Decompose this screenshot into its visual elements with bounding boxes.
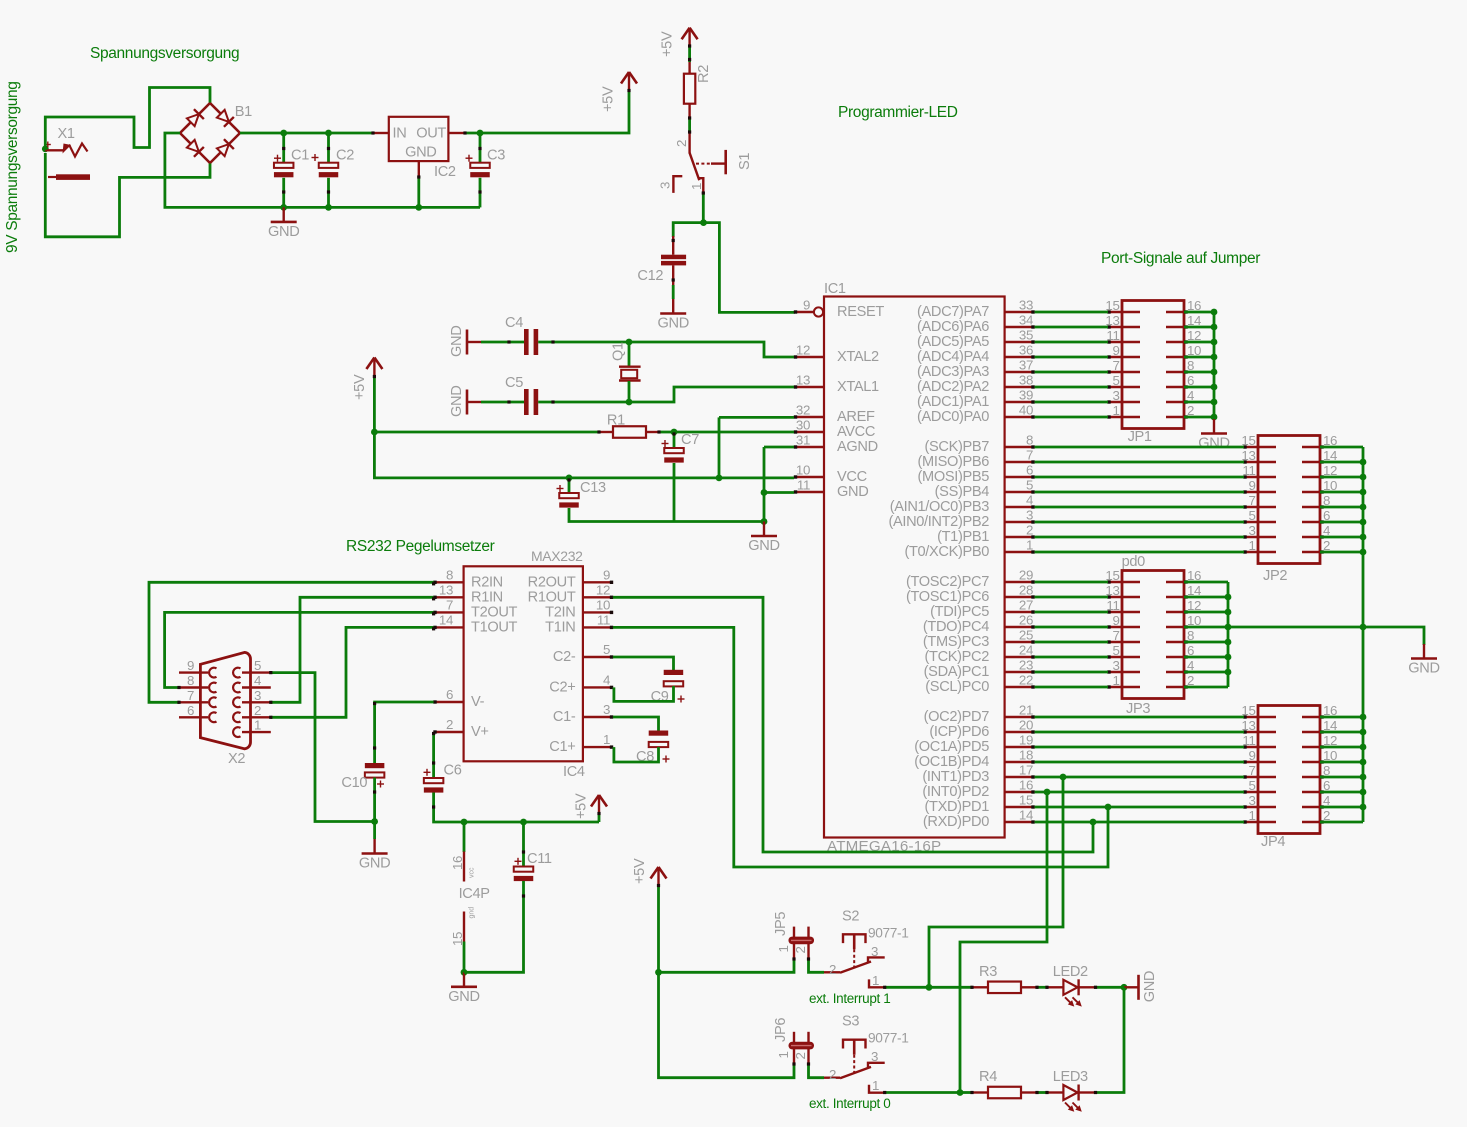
IC1 pin 33 (ADC7)PA7: [1005, 311, 1035, 313]
IC1 pin 15 (TXD)PD1: [1005, 806, 1035, 808]
voltage regulator IC2: [389, 117, 449, 161]
JP1 pin 12: [1166, 341, 1184, 344]
svg-text:9: 9: [187, 658, 194, 673]
JP2 pin 9: [1244, 491, 1276, 494]
bridge rectifier B1: [180, 103, 210, 133]
svg-text:6: 6: [1026, 463, 1033, 478]
svg-text:C5: C5: [505, 375, 523, 391]
capacitor C5: [481, 401, 524, 404]
svg-text:(AIN1/OC0)PB3: (AIN1/OC0)PB3: [890, 499, 989, 515]
svg-text:8: 8: [446, 567, 453, 582]
JP1 pin 2: [1166, 416, 1184, 419]
capacitor C9: [613, 657, 674, 670]
svg-text:19: 19: [1019, 733, 1033, 748]
resistor R4: [960, 1091, 972, 1094]
wire S2 pin1 to node: [885, 986, 929, 989]
svg-text:18: 18: [1019, 748, 1033, 763]
IC4 pin 10 T2IN: [583, 611, 613, 613]
svg-text:T2IN: T2IN: [545, 604, 575, 620]
svg-text:(ADC5)PA5: (ADC5)PA5: [917, 334, 989, 350]
svg-text:(T0/XCK)PB0: (T0/XCK)PB0: [904, 544, 989, 560]
JP4 pin 2: [1302, 821, 1320, 824]
svg-text:2: 2: [674, 140, 689, 147]
wires JP2 to ground bus: [1320, 446, 1363, 449]
ground right of LED2: [1124, 986, 1139, 988]
JP3 pin 10: [1166, 626, 1184, 629]
switch S1: [688, 133, 690, 153]
svg-text:9: 9: [1112, 343, 1119, 358]
svg-text:RS232 Pegelumsetzer: RS232 Pegelumsetzer: [346, 538, 495, 555]
wire V+ to C6: [432, 732, 435, 779]
JP2 pin 16: [1302, 446, 1320, 449]
svg-text:GND: GND: [405, 145, 436, 161]
wire AGND to GND net: [764, 446, 794, 449]
switch S3: [809, 1063, 825, 1078]
svg-text:IC1: IC1: [824, 281, 846, 297]
IC1 pin 6 (MOSI)PB5: [1005, 476, 1035, 478]
svg-text:4: 4: [603, 672, 610, 687]
svg-text:Q1: Q1: [610, 342, 626, 361]
wire node to C12: [673, 223, 703, 237]
svg-text:3: 3: [658, 182, 673, 189]
IC1 pin 20 (ICP)PD6: [1005, 731, 1035, 733]
IC1 pin 19 (OC1A)PD5: [1005, 746, 1035, 748]
JP1 pin 7: [1108, 371, 1140, 374]
svg-text:(RXD)PD0: (RXD)PD0: [923, 814, 989, 830]
IC4 pin 7 T2OUT: [434, 611, 464, 613]
svg-text:C2-: C2-: [553, 649, 576, 665]
svg-text:+5V: +5V: [632, 858, 648, 884]
svg-text:Spannungsversorgung: Spannungsversorgung: [90, 45, 239, 62]
JP1 pin 11: [1108, 341, 1140, 344]
jumper JP5: [793, 927, 795, 959]
svg-text:8: 8: [187, 673, 194, 688]
crystal Q1: [628, 342, 631, 366]
wire C5 to XTAL1: [629, 387, 794, 402]
svg-text:S2: S2: [842, 908, 859, 924]
svg-text:13: 13: [796, 373, 810, 388]
svg-text:(TOSC1)PC6: (TOSC1)PC6: [906, 589, 989, 605]
JP2 pin 6: [1302, 521, 1320, 524]
IC1 pin 36 (ADC4)PA4: [1005, 356, 1035, 358]
svg-text:(OC1A)PD5: (OC1A)PD5: [914, 739, 989, 755]
IC1 pin 17 (INT1)PD3: [1005, 776, 1035, 778]
svg-text:R1OUT: R1OUT: [528, 589, 576, 605]
wire PD2 to switch S3: [960, 792, 1047, 1093]
IC4 pin 2 V+: [434, 731, 464, 733]
IC4 pin 13 R1IN: [434, 596, 464, 598]
ground under C10: [373, 822, 376, 840]
svg-text:7: 7: [446, 597, 453, 612]
wires JP3 to ground column: [1184, 581, 1228, 584]
svg-text:26: 26: [1019, 613, 1033, 628]
svg-text:IN: IN: [393, 126, 407, 142]
capacitor C12: [672, 236, 674, 255]
svg-text:(INT1)PD3: (INT1)PD3: [922, 769, 989, 785]
IC1 pin 25 (TMS)PC3: [1005, 641, 1035, 643]
svg-text:JP5: JP5: [773, 912, 789, 936]
+5V symbol above R2: [682, 28, 690, 40]
IC1 pin 3 (AIN0/INT2)PB2: [1005, 521, 1035, 523]
wires IC1 port A to JP1: [1035, 311, 1108, 314]
IC1 pin 16 (INT0)PD2: [1005, 791, 1035, 793]
svg-text:XTAL1: XTAL1: [837, 379, 879, 395]
svg-text:3: 3: [1248, 793, 1255, 808]
svg-text:1: 1: [872, 973, 879, 988]
svg-text:9077-1: 9077-1: [868, 925, 909, 940]
X2 pin 1: [242, 731, 271, 733]
svg-text:31: 31: [796, 433, 810, 448]
JP3 pin 14: [1166, 596, 1184, 599]
wire bridge plus to IC2 IN: [240, 132, 373, 135]
svg-text:IC2: IC2: [434, 164, 456, 180]
svg-text:11: 11: [597, 612, 610, 627]
wires IC1 port D to JP4: [1035, 716, 1244, 719]
JP4 pin 16: [1302, 716, 1320, 719]
svg-text:IC4P: IC4P: [459, 886, 490, 902]
JP1 pin 13: [1108, 326, 1140, 329]
svg-text:C4: C4: [505, 315, 523, 331]
LED LED3: [1048, 1091, 1064, 1093]
svg-text:6: 6: [187, 703, 194, 718]
svg-text:1: 1: [776, 945, 791, 952]
svg-text:30: 30: [796, 418, 810, 433]
svg-text:22: 22: [1019, 673, 1033, 688]
wire T2OUT to X2 pin8: [165, 612, 434, 687]
capacitor C6: [424, 778, 444, 783]
svg-text:8: 8: [1026, 433, 1033, 448]
node PD1 TXD: [1105, 804, 1112, 811]
svg-text:JP3: JP3: [1126, 701, 1150, 717]
IC1 pin 22 (SCL)PC0: [1005, 686, 1035, 688]
JP2 pin 3: [1244, 536, 1276, 539]
JP2 pin 1: [1244, 551, 1276, 554]
svg-text:ext. Interrupt 0: ext. Interrupt 0: [809, 1096, 890, 1111]
svg-text:IC4: IC4: [563, 764, 585, 780]
wire X2 pin5 to ground: [271, 673, 375, 822]
svg-text:7: 7: [1248, 763, 1255, 778]
svg-text:JP1: JP1: [1128, 429, 1152, 445]
wire ground bus down to LED3: [1094, 987, 1124, 1092]
X2 pin 8: [179, 686, 208, 688]
wire +5V down to VCC row: [374, 432, 794, 478]
svg-text:9077-1: 9077-1: [868, 1031, 909, 1046]
resistor R1: [374, 431, 599, 434]
X2 pin 6: [179, 716, 208, 718]
svg-text:35: 35: [1019, 328, 1033, 343]
svg-text:2: 2: [829, 962, 836, 977]
node C11 branch: [520, 819, 527, 826]
svg-text:3: 3: [1248, 523, 1255, 538]
JP3 pin 11: [1108, 611, 1140, 614]
svg-text:AREF: AREF: [837, 409, 875, 425]
svg-text:S1: S1: [737, 153, 753, 170]
wire S3 pin1 to node: [885, 1091, 960, 1094]
X2 pin 3: [242, 701, 271, 703]
jumper header JP3: [1122, 571, 1184, 699]
svg-text:16: 16: [450, 856, 465, 870]
svg-text:1: 1: [1248, 808, 1255, 823]
wire JP3 ground column to GND: [1228, 627, 1424, 645]
svg-text:4: 4: [1026, 493, 1033, 508]
node IC4P VCC branch: [461, 819, 468, 826]
node PD0 RXD: [1090, 819, 1097, 826]
svg-text:21: 21: [1019, 703, 1033, 718]
wire bridge minus to ground rail: [165, 133, 480, 207]
svg-text:T1IN: T1IN: [545, 619, 575, 635]
X2 pin 5: [242, 671, 271, 673]
wire R2IN to X2 pin7: [149, 582, 434, 702]
IC1 pin 9 RESET: [795, 311, 814, 313]
IC4 pin 12 R1OUT: [583, 596, 613, 598]
capacitor C10: [365, 763, 385, 768]
svg-text:11: 11: [797, 478, 810, 493]
svg-text:29: 29: [1019, 568, 1033, 583]
JP3 pin 2: [1166, 686, 1184, 689]
wire node to IC1 RESET: [704, 223, 796, 313]
JP3 pin 13: [1108, 596, 1140, 599]
wires JP1 to ground bus: [1184, 311, 1214, 314]
JP3 pin 16: [1166, 581, 1184, 584]
svg-text:13: 13: [439, 582, 453, 597]
wires IC1 port B to JP2: [1035, 446, 1244, 449]
svg-text:34: 34: [1019, 313, 1033, 328]
IC1 pin 31 AGND: [794, 446, 824, 448]
JP2 pin 15: [1244, 446, 1276, 449]
ground right of JP3: [1423, 644, 1425, 659]
svg-text:(T1)PB1: (T1)PB1: [937, 529, 989, 545]
svg-text:9V Spannungsversorgung: 9V Spannungsversorgung: [4, 81, 21, 253]
IC4 pin 5 C2-: [583, 656, 613, 658]
JP4 pin 9: [1244, 761, 1276, 764]
wires JP4 to ground bus: [1320, 716, 1363, 719]
svg-text:C1: C1: [291, 148, 309, 164]
JP1 pin 14: [1166, 326, 1184, 329]
svg-text:5: 5: [1112, 373, 1119, 388]
IC1 pin 38 (ADC2)PA2: [1005, 386, 1035, 388]
svg-text:ext. Interrupt 1: ext. Interrupt 1: [809, 991, 890, 1006]
svg-text:(TMS)PC3: (TMS)PC3: [923, 634, 989, 650]
svg-text:3: 3: [871, 1049, 878, 1064]
svg-text:C3: C3: [487, 148, 505, 164]
JP2 pin 11: [1244, 476, 1276, 479]
svg-text:4: 4: [254, 673, 261, 688]
JP3 pin 15: [1108, 581, 1140, 584]
IC1 pin 40 (ADC0)PA0: [1005, 416, 1035, 418]
svg-text:5: 5: [603, 642, 610, 657]
wire X1 tip to bridge top: [45, 88, 210, 151]
+5V symbol for interrupts: [651, 867, 659, 879]
+5V symbol at AVCC: [366, 358, 374, 370]
svg-text:(ADC1)PA1: (ADC1)PA1: [917, 394, 989, 410]
svg-text:(AIN0/INT2)PB2: (AIN0/INT2)PB2: [888, 514, 989, 530]
JP3 pin 12: [1166, 611, 1184, 614]
svg-text:(ADC6)PA6: (ADC6)PA6: [917, 319, 989, 335]
wire PD3 to switch S2: [929, 777, 1063, 987]
capacitor C11: [522, 822, 525, 867]
svg-text:V+: V+: [471, 724, 489, 740]
svg-text:1: 1: [689, 183, 704, 190]
svg-text:(OC1B)PD4: (OC1B)PD4: [914, 754, 989, 770]
svg-text:7: 7: [1248, 493, 1255, 508]
node PD2 INT0: [1044, 789, 1051, 796]
svg-text:39: 39: [1019, 388, 1033, 403]
wires IC1 port C to JP3: [1035, 581, 1108, 584]
svg-text:9: 9: [1112, 613, 1119, 628]
svg-text:V-: V-: [471, 694, 485, 710]
svg-text:OUT: OUT: [416, 126, 446, 142]
IC1 pin 11 GND: [794, 491, 824, 493]
wire LED2 to ground: [1094, 986, 1124, 989]
svg-text:GND: GND: [449, 386, 465, 417]
svg-text:2: 2: [793, 1052, 808, 1059]
svg-text:R1: R1: [607, 413, 625, 429]
power pin IC4P: [463, 822, 466, 852]
svg-text:3: 3: [871, 944, 878, 959]
wire IC2 OUT to +5V: [464, 90, 629, 133]
wire C4 to XTAL2: [629, 342, 794, 357]
svg-text:40: 40: [1019, 403, 1033, 418]
svg-text:6: 6: [446, 687, 453, 702]
svg-text:1: 1: [1112, 673, 1119, 688]
svg-text:JP4: JP4: [1261, 834, 1285, 850]
JP4 pin 14: [1302, 731, 1320, 734]
svg-text:20: 20: [1019, 718, 1033, 733]
IC1 pin 39 (ADC1)PA1: [1005, 401, 1035, 403]
svg-text:32: 32: [796, 403, 810, 418]
svg-text:17: 17: [1019, 763, 1033, 778]
JP1 pin 10: [1166, 356, 1184, 359]
svg-text:28: 28: [1019, 583, 1033, 598]
svg-text:GND: GND: [359, 856, 390, 872]
svg-text:+5V: +5V: [574, 793, 590, 819]
svg-text:7: 7: [1026, 448, 1033, 463]
svg-text:GND: GND: [268, 224, 299, 240]
svg-text:C11: C11: [527, 851, 552, 867]
IC1 pin 8 (SCK)PB7: [1005, 446, 1035, 448]
wire T1OUT to X2 pin2: [271, 627, 434, 717]
svg-text:3: 3: [1112, 388, 1119, 403]
svg-text:R1IN: R1IN: [471, 589, 503, 605]
svg-text:GND: GND: [1198, 436, 1229, 452]
svg-text:VCC: VCC: [837, 469, 867, 485]
JP2 pin 7: [1244, 506, 1276, 509]
wire T1IN to PD1 TXD: [613, 627, 1108, 867]
ground under IC4P: [463, 972, 465, 987]
IC1 pin 12 XTAL2: [794, 356, 824, 358]
JP4 pin 15: [1244, 716, 1276, 719]
IC1 pin 29 (TOSC2)PC7: [1005, 581, 1035, 583]
JP4 pin 13: [1244, 731, 1276, 734]
svg-text:15: 15: [1019, 793, 1033, 808]
svg-text:C12: C12: [637, 268, 663, 284]
svg-text:+5V: +5V: [660, 31, 676, 57]
svg-text:C2+: C2+: [549, 679, 575, 695]
svg-text:C1-: C1-: [553, 709, 576, 725]
resistor R2: [688, 46, 691, 62]
JP3 pin 8: [1166, 641, 1184, 644]
IC4 pin 8 R2IN: [434, 581, 464, 583]
resistor R3: [929, 986, 972, 989]
svg-text:AGND: AGND: [837, 439, 878, 455]
JP4 pin 1: [1244, 821, 1276, 824]
svg-text:B1: B1: [235, 104, 252, 120]
capacitor C7: [673, 432, 676, 449]
IC4 pin 6 V-: [434, 701, 464, 703]
IC4 pin 4 C2+: [583, 686, 613, 688]
svg-text:9: 9: [1248, 478, 1255, 493]
svg-text:C13: C13: [580, 480, 606, 496]
svg-text:JP6: JP6: [773, 1018, 789, 1042]
JP4 pin 8: [1302, 776, 1320, 779]
svg-text:R2OUT: R2OUT: [528, 574, 576, 590]
svg-text:(ADC4)PA4: (ADC4)PA4: [917, 349, 989, 365]
ground under IC1: [763, 522, 765, 537]
capacitor C3: [479, 133, 482, 164]
JP4 pin 5: [1244, 791, 1276, 794]
svg-text:(ADC2)PA2: (ADC2)PA2: [917, 379, 989, 395]
IC1 pin 32 AREF: [794, 416, 824, 418]
ground under C12: [672, 299, 674, 314]
svg-text:1: 1: [872, 1078, 879, 1093]
svg-text:11: 11: [1106, 328, 1119, 343]
svg-text:JP2: JP2: [1263, 568, 1287, 584]
JP1 pin 9: [1108, 356, 1140, 359]
svg-text:36: 36: [1019, 343, 1033, 358]
svg-text:1: 1: [776, 1051, 791, 1058]
JP2 pin 13: [1244, 461, 1276, 464]
svg-text:T1OUT: T1OUT: [471, 619, 518, 635]
+5V symbol near IC4: [591, 795, 599, 807]
IC4 pin 14 T1OUT: [434, 626, 464, 628]
svg-text:R3: R3: [979, 964, 997, 980]
JP1 pin 6: [1166, 386, 1184, 389]
JP2 pin 8: [1302, 506, 1320, 509]
JP4 pin 4: [1302, 806, 1320, 809]
capacitor C1: [282, 133, 285, 164]
JP2 pin 4: [1302, 536, 1320, 539]
JP1 pin 1: [1108, 416, 1140, 419]
capacitor C13: [568, 478, 571, 494]
svg-text:+5V: +5V: [601, 86, 617, 112]
IC1 pin 7 (MISO)PB6: [1005, 461, 1035, 463]
node PD3 INT1: [1060, 774, 1067, 781]
wire +5V down to JP6: [659, 972, 795, 1077]
node AVCC: [371, 429, 378, 436]
JP2 pin 2: [1302, 551, 1320, 554]
svg-text:25: 25: [1019, 628, 1033, 643]
svg-text:GND: GND: [837, 484, 868, 500]
wire X1 sleeve to bridge bottom: [45, 153, 210, 237]
ground under JP1: [1213, 419, 1215, 434]
svg-text:11: 11: [1106, 598, 1119, 613]
IC1 pin 13 XTAL1: [794, 386, 824, 388]
svg-text:(ADC3)PA3: (ADC3)PA3: [917, 364, 989, 380]
svg-text:(ADC0)PA0: (ADC0)PA0: [917, 409, 989, 425]
svg-text:RESET: RESET: [837, 304, 884, 320]
IC1 pin 24 (TCK)PC2: [1005, 656, 1035, 658]
JP3 pin 9: [1108, 626, 1140, 629]
svg-text:R2: R2: [696, 65, 712, 83]
IC1 pin 28 (TOSC1)PC6: [1005, 596, 1035, 598]
X2 pin 4: [242, 686, 271, 688]
jumper header JP1: [1122, 301, 1184, 429]
svg-text:LED3: LED3: [1053, 1069, 1088, 1085]
JP3 pin 7: [1108, 641, 1140, 644]
JP2 pin 5: [1244, 521, 1276, 524]
JP4 pin 3: [1244, 806, 1276, 809]
JP4 pin 6: [1302, 791, 1320, 794]
